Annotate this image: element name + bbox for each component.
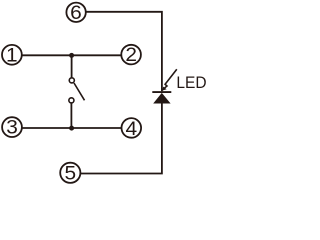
svg-text:4: 4	[125, 119, 137, 140]
svg-text:2: 2	[125, 45, 137, 66]
svg-text:3: 3	[6, 117, 18, 138]
svg-text:1: 1	[6, 45, 18, 66]
svg-text:LED: LED	[176, 74, 206, 92]
svg-text:5: 5	[64, 163, 76, 184]
svg-text:6: 6	[70, 3, 82, 24]
